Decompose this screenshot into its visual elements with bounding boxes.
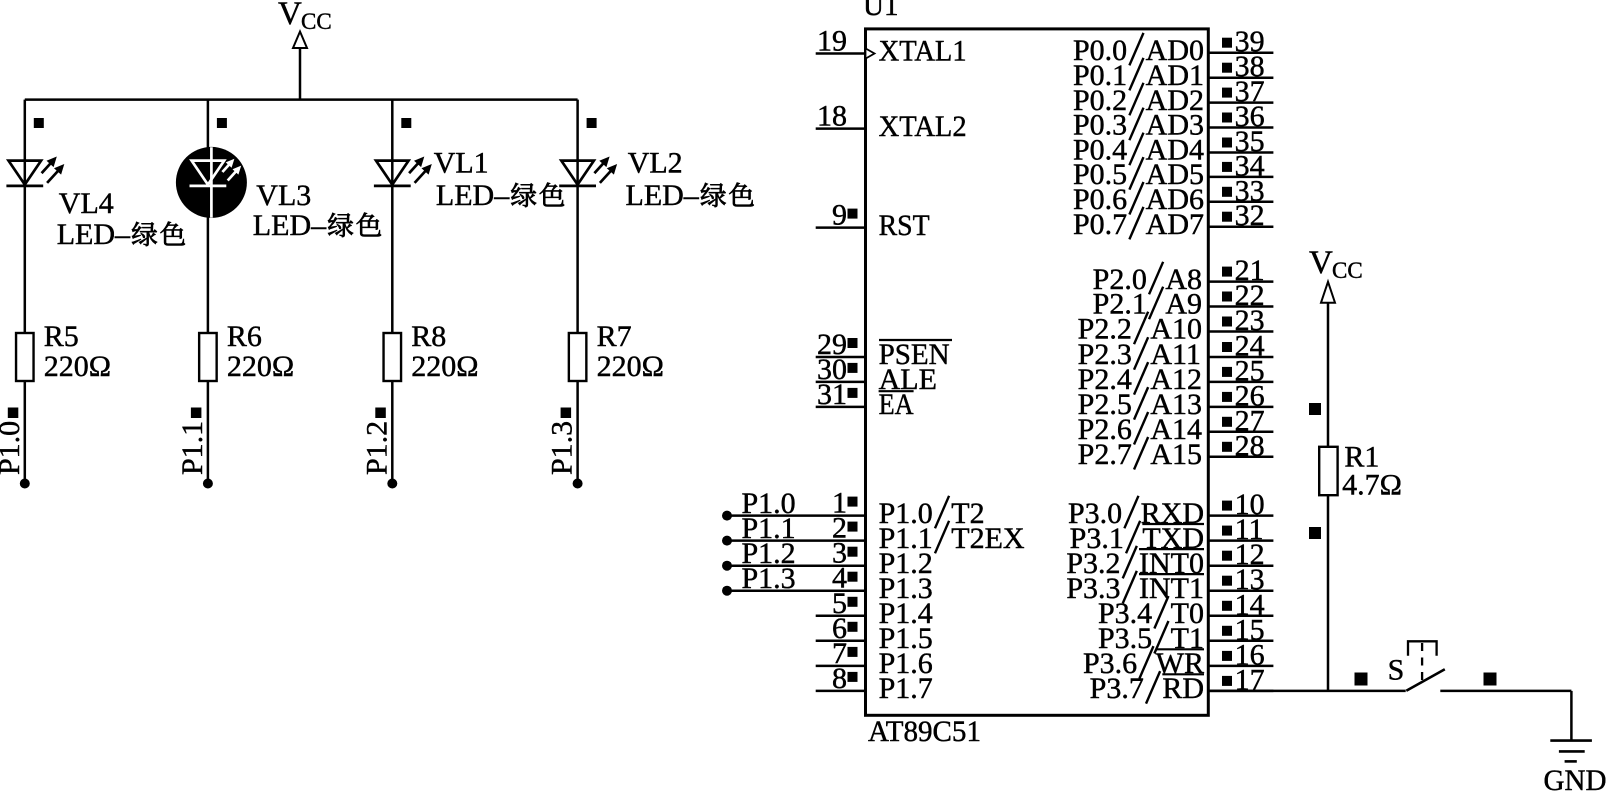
svg-text:R5: R5 [44, 320, 79, 353]
svg-text:R8: R8 [411, 320, 446, 353]
svg-text:A15: A15 [1150, 438, 1202, 471]
svg-text:220Ω: 220Ω [597, 350, 664, 383]
svg-text:V: V [278, 0, 302, 32]
svg-text:RST: RST [879, 209, 930, 242]
svg-text:VL2: VL2 [628, 147, 683, 180]
svg-text:RD: RD [1162, 672, 1204, 705]
svg-text:4.7Ω: 4.7Ω [1342, 469, 1402, 502]
svg-text:CC: CC [301, 9, 332, 34]
svg-text:VL3: VL3 [256, 179, 311, 212]
svg-text:–: – [310, 209, 327, 242]
svg-text:LED: LED [57, 218, 115, 251]
svg-text:220Ω: 220Ω [227, 350, 294, 383]
svg-text:32: 32 [1235, 199, 1265, 232]
svg-text:19: 19 [817, 25, 847, 58]
svg-text:AD7: AD7 [1146, 208, 1204, 241]
svg-text:18: 18 [817, 100, 847, 133]
svg-text:U1: U1 [863, 0, 898, 22]
svg-text:LED: LED [436, 179, 494, 212]
svg-text:T2EX: T2EX [951, 522, 1025, 555]
svg-text:220Ω: 220Ω [44, 350, 111, 383]
svg-text:XTAL1: XTAL1 [879, 35, 967, 68]
svg-text:220Ω: 220Ω [411, 350, 478, 383]
svg-text:31: 31 [817, 378, 847, 411]
svg-text:8: 8 [832, 662, 847, 695]
svg-text:LED: LED [253, 209, 311, 242]
svg-text:–: – [493, 179, 510, 212]
svg-text:R6: R6 [227, 320, 262, 353]
svg-text:XTAL2: XTAL2 [879, 110, 967, 143]
svg-text:28: 28 [1235, 429, 1265, 462]
svg-text:P1.7: P1.7 [879, 672, 933, 705]
svg-text:R7: R7 [597, 320, 632, 353]
svg-text:VL1: VL1 [434, 147, 489, 180]
svg-text:P1.1: P1.1 [176, 421, 209, 475]
svg-text:P1.3: P1.3 [742, 562, 796, 595]
svg-text:P2.7: P2.7 [1078, 438, 1132, 471]
svg-text:P3.7: P3.7 [1090, 672, 1144, 705]
svg-text:P1.2: P1.2 [360, 421, 393, 475]
svg-text:V: V [1309, 245, 1333, 281]
svg-text:GND: GND [1544, 764, 1606, 794]
svg-text:P1.0: P1.0 [0, 421, 26, 475]
svg-text:P0.7: P0.7 [1073, 208, 1127, 241]
svg-text:EA: EA [879, 388, 914, 421]
svg-text:S: S [1388, 654, 1405, 687]
svg-text:–: – [114, 218, 131, 251]
svg-text:LED: LED [626, 179, 684, 212]
svg-text:CC: CC [1332, 258, 1363, 283]
svg-text:VL4: VL4 [59, 187, 114, 220]
svg-text:–: – [683, 179, 700, 212]
svg-text:P1.3: P1.3 [546, 421, 579, 475]
svg-text:9: 9 [832, 199, 847, 232]
svg-text:AT89C51: AT89C51 [868, 715, 981, 748]
